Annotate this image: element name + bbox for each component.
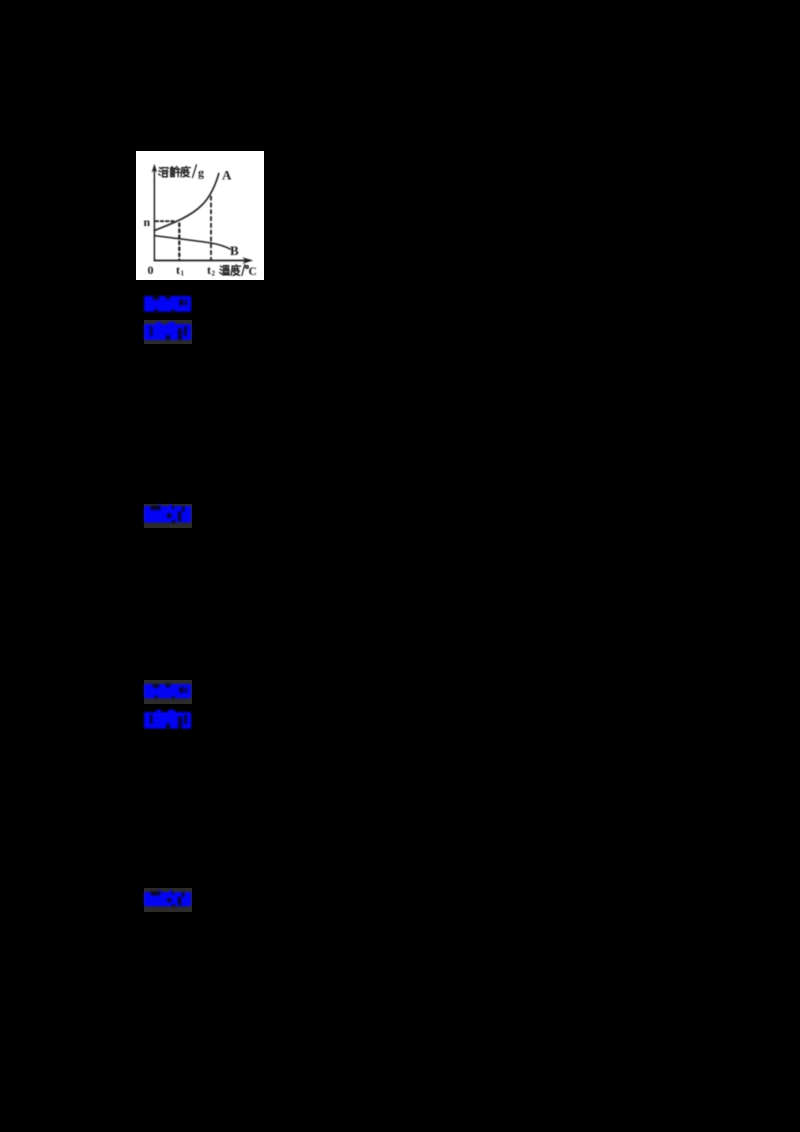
glyph du — [181, 166, 191, 177]
x-axis unit wen-du/C — [220, 265, 249, 276]
chart glyphs — [159, 165, 197, 178]
blue label [dian ping] 6 — [141, 889, 194, 910]
svg-text:C: C — [249, 266, 257, 278]
svg-text:t: t — [207, 263, 211, 277]
glyph wen — [220, 266, 230, 275]
degree circle — [246, 266, 249, 269]
y axis arrow — [152, 165, 156, 172]
dotted vertical t2 — [210, 197, 212, 261]
glyph rong — [159, 168, 168, 177]
curve A — [155, 174, 219, 231]
solubility chart figure — [136, 151, 264, 280]
svg-text:B: B — [230, 243, 239, 258]
y axis — [153, 168, 155, 261]
highlight bar 3 — [144, 504, 192, 528]
slash2 — [242, 265, 245, 276]
svg-text:A: A — [222, 168, 232, 183]
blue label [jie xi] 5 — [141, 709, 194, 733]
curve B — [154, 236, 230, 250]
blue label [jie xi] 2 — [141, 321, 194, 344]
blue label [da an] 1 — [141, 293, 194, 316]
svg-text:n: n — [144, 215, 151, 229]
x axis arrow — [244, 258, 253, 263]
svg-text:t: t — [176, 263, 180, 277]
dotted horizontal at n — [156, 220, 177, 222]
glyph du2 — [231, 265, 241, 276]
svg-text:1: 1 — [181, 270, 185, 278]
dotted vertical t1 — [178, 224, 180, 261]
x axis — [154, 260, 248, 262]
svg-text:0: 0 — [148, 263, 154, 277]
glyph jie — [171, 166, 181, 176]
svg-text:2: 2 — [212, 270, 216, 278]
blue label [dian ping] 3 — [141, 503, 194, 527]
highlight bar 2 — [144, 320, 192, 344]
svg-text:g: g — [198, 166, 204, 180]
highlight bar 4 — [144, 680, 192, 704]
blue label [da an] 4 — [141, 681, 194, 702]
highlight bar 6 — [144, 888, 192, 912]
slash — [193, 165, 197, 178]
